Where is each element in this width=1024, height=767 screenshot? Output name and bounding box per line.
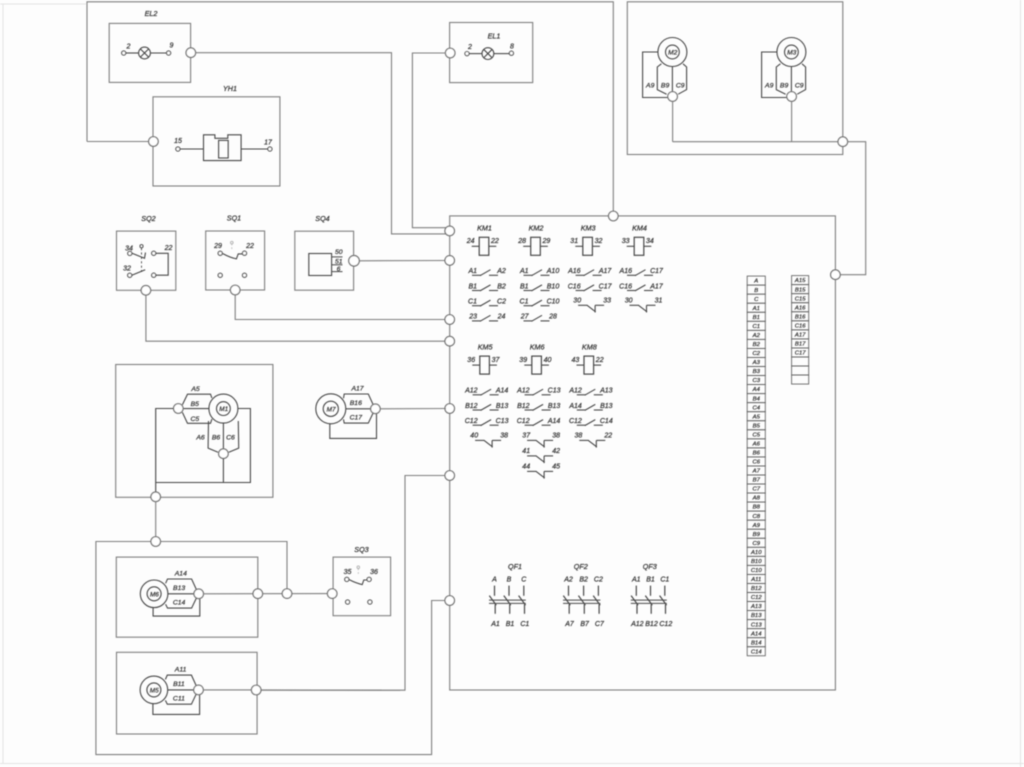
node: M1 bottom terminal [219,449,229,459]
svg-text:KM3: KM3 [581,224,596,233]
svg-text:B13: B13 [600,403,613,410]
node: motor box output [838,137,848,147]
svg-text:B16: B16 [350,400,362,407]
svg-text:A14: A14 [495,388,509,395]
svg-text:YH1: YH1 [223,84,237,93]
svg-text:C5: C5 [752,432,760,438]
wire: M1 internal bracket [156,409,174,493]
terminal strip X2 [792,276,809,384]
svg-text:17: 17 [264,140,273,147]
svg-text:41: 41 [522,448,530,455]
node: SQ3 input [327,589,337,599]
contactor coil KM4 [622,224,654,256]
svg-text:28: 28 [517,238,526,245]
svg-text:B11: B11 [173,681,185,688]
wire: M7 to main box [380,408,446,410]
svg-text:C17: C17 [350,415,363,422]
svg-text:A12: A12 [516,388,530,395]
wire: M1 box to lower bus [155,502,157,537]
wire: M2 node down [672,101,674,141]
svg-text:29: 29 [213,243,222,250]
svg-text:C3: C3 [752,378,760,384]
svg-text:6: 6 [337,266,341,273]
svg-text:B6: B6 [212,434,221,441]
svg-text:B9: B9 [661,83,670,90]
contactor coil KM1 [466,224,499,256]
motor M3 [762,38,806,98]
node: main box left (M7) [445,404,455,414]
node: YH1 input [149,137,159,147]
svg-text:B7: B7 [580,621,590,628]
node: main box left (SQ4) [445,256,455,266]
motor M7 [316,386,377,439]
svg-text:43: 43 [572,357,580,364]
svg-text:C2: C2 [752,351,760,357]
node: main box left (M1 bus) [445,471,455,481]
node: M6/loop junction [282,589,292,599]
svg-text:KM5: KM5 [478,343,494,352]
svg-text:B: B [754,288,758,294]
svg-text:C4: C4 [752,405,760,411]
svg-text:A14: A14 [547,418,561,425]
svg-text:44: 44 [522,463,530,470]
contactor coil KM2 [517,224,550,256]
svg-text:KM2: KM2 [529,224,544,233]
svg-text:C1: C1 [660,576,669,583]
node: M6 box border [253,589,263,599]
svg-text:B15: B15 [795,287,806,293]
svg-text:38: 38 [500,432,508,439]
svg-text:A7: A7 [564,621,575,628]
svg-text:C17: C17 [599,283,613,290]
svg-text:38: 38 [575,432,583,439]
svg-text:B13: B13 [548,403,561,410]
svg-text:M6: M6 [150,591,159,598]
svg-text:A9: A9 [645,83,655,90]
wire W2: EL1 to main box left border [412,53,446,228]
wire: SQ2 to main box [146,295,446,341]
wire: SQ4 to main box [359,260,446,262]
svg-text:28: 28 [548,314,557,321]
svg-text:B16: B16 [795,314,806,320]
circuit breaker QF1 [489,562,529,628]
svg-text:A9: A9 [764,83,774,90]
svg-text:SQ3: SQ3 [354,545,368,554]
svg-text:M5: M5 [150,688,159,695]
svg-text:C12: C12 [569,418,582,425]
svg-text:M7: M7 [327,406,336,413]
svg-text:38: 38 [552,432,560,439]
contact group KM6 [516,388,560,479]
svg-text:C9: C9 [795,83,804,90]
svg-text:24: 24 [497,314,506,321]
svg-text:A: A [753,279,758,285]
svg-text:EL2: EL2 [145,9,158,18]
svg-text:32: 32 [123,266,131,273]
wire: M1 bottom node down [222,459,224,483]
svg-text:A14: A14 [750,631,762,637]
svg-text:B1: B1 [520,283,529,290]
svg-text:32: 32 [595,238,603,245]
svg-text:B13: B13 [173,585,185,592]
wire: loop bus from main box through bottom [96,542,445,755]
svg-text:C16: C16 [568,283,581,290]
svg-text:EL1: EL1 [488,32,501,41]
box: motor M5 enclosure [117,652,258,734]
svg-text:C14: C14 [751,649,763,655]
svg-text:A1: A1 [752,306,760,312]
motor M5 [140,667,200,715]
svg-text:A1: A1 [631,576,641,583]
contact group KM4 [619,268,664,312]
svg-text:SQ4: SQ4 [315,214,329,223]
svg-text:A12: A12 [630,621,644,628]
svg-text:A12: A12 [568,388,582,395]
node: M3 star point [787,92,797,102]
motor M2 [643,38,687,98]
motor M6 [140,571,200,617]
node: main box left (lamps) [445,226,455,236]
svg-text:A16: A16 [567,268,581,275]
box: motor M1 enclosure [116,365,273,498]
svg-text:A16: A16 [794,305,806,311]
svg-text:2: 2 [126,44,131,51]
node: main box left (SQ2) [445,336,455,346]
svg-text:31: 31 [570,238,578,245]
svg-text:B2: B2 [579,576,588,583]
transformer YH1 [153,84,280,186]
svg-text:B3: B3 [753,369,761,375]
svg-text:2: 2 [467,44,472,51]
lamp EL2 [109,9,190,82]
svg-text:B1: B1 [506,621,515,628]
node: M6 star point [194,589,204,599]
node: M1 bus junction [151,537,161,547]
node: M2 star point [668,92,678,102]
svg-text:30: 30 [573,297,581,304]
svg-text:C17: C17 [650,268,664,275]
svg-text:KM1: KM1 [477,224,492,233]
svg-text:C1: C1 [520,299,529,306]
svg-text:B17: B17 [795,342,806,348]
svg-text:A17: A17 [350,386,363,393]
wire: YH1 node to left bus [87,141,149,143]
svg-text:A16: A16 [619,268,633,275]
svg-text:C12: C12 [751,595,763,601]
circuit breaker QF3 [630,562,672,628]
svg-text:C13: C13 [751,622,763,628]
svg-text:C15: C15 [795,296,807,302]
wire: M6 to SQ3 [204,593,328,595]
limit switch SQ2 [117,214,176,290]
svg-text:B2: B2 [497,283,506,290]
svg-text:A3: A3 [752,360,761,366]
svg-text:KM8: KM8 [582,343,597,352]
svg-text:C8: C8 [752,514,760,520]
svg-text:B13: B13 [496,403,509,410]
svg-text:C11: C11 [173,696,185,703]
svg-text:C1: C1 [468,299,477,306]
svg-text:A5: A5 [190,386,200,393]
svg-text:C12: C12 [465,418,478,425]
svg-text:A8: A8 [752,496,761,502]
contact group KM3 [567,268,612,312]
svg-text:B2: B2 [753,342,761,348]
svg-text:C6: C6 [752,460,760,466]
node: SQ4 output [349,255,360,266]
svg-text:SQ1: SQ1 [227,214,241,223]
limit switch SQ1 [206,214,265,291]
svg-text:B9: B9 [753,532,761,538]
svg-text:B5: B5 [753,423,761,429]
svg-text:45: 45 [552,463,560,470]
svg-text:40: 40 [470,432,478,439]
node: main box top (from lighting bus) [609,211,619,221]
contact group KM2 [519,268,560,321]
svg-text:C16: C16 [619,283,632,290]
node: EL1 input [445,48,455,58]
svg-text:SQ2: SQ2 [141,214,155,223]
svg-text:C14: C14 [173,600,186,607]
svg-text:A4: A4 [752,387,761,393]
contact group KM5 [464,388,508,448]
svg-text:37: 37 [522,432,531,439]
svg-text:C10: C10 [547,299,560,306]
svg-text:A13: A13 [599,388,613,395]
svg-text:C5: C5 [190,416,199,423]
node: EL2 output [186,48,196,58]
node: main box left (M5 bus) [445,596,455,606]
svg-text:B1: B1 [468,283,477,290]
svg-text:C2: C2 [594,576,603,583]
svg-text:36: 36 [370,569,378,576]
svg-text:B13: B13 [751,613,762,619]
svg-text:22: 22 [490,238,499,245]
svg-text:A5: A5 [752,414,761,420]
svg-text:22: 22 [245,243,254,250]
wire W1: EL2 to main box left border [196,53,447,234]
wire: loop bus drop to M6 line [282,542,287,594]
svg-text:A11: A11 [750,577,761,583]
svg-text:A11: A11 [174,667,187,674]
wire: top bus from YH1 up-left, across top, down to main box [87,2,613,212]
svg-text:C1: C1 [520,621,529,628]
svg-text:C13: C13 [548,388,561,395]
box: motors M2 M3 enclosure [627,2,843,155]
svg-text:C12: C12 [659,621,672,628]
svg-text:A15: A15 [794,278,806,284]
svg-text:B10: B10 [751,559,762,565]
svg-text:A10: A10 [546,268,560,275]
svg-text:37: 37 [492,357,501,364]
svg-text:22: 22 [164,245,173,252]
svg-text:M2: M2 [668,50,677,57]
box: motor M6 enclosure [116,557,257,637]
svg-text:B4: B4 [753,396,761,402]
svg-text:B12: B12 [751,586,762,592]
svg-text:QF2: QF2 [574,562,588,571]
svg-text:C16: C16 [795,323,807,329]
svg-text:51: 51 [335,258,343,265]
svg-text:A2: A2 [496,268,506,275]
circuit breaker QF2 [563,562,605,628]
svg-text:KM6: KM6 [530,343,545,352]
svg-text:30: 30 [625,297,633,304]
svg-text:A6: A6 [752,441,761,447]
lamp EL1 [450,23,533,83]
svg-text:A9: A9 [752,523,761,529]
svg-text:B7: B7 [753,478,761,484]
motor M1 [182,386,238,452]
svg-text:23: 23 [468,314,477,321]
svg-text:QF3: QF3 [643,562,657,571]
wire: SQ1 to main box [235,295,446,320]
svg-text:36: 36 [467,357,475,364]
node: SQ1 output [230,285,240,295]
svg-text:B8: B8 [753,505,761,511]
svg-text:C2: C2 [497,299,506,306]
svg-text:A17: A17 [598,268,613,275]
svg-text:C12: C12 [517,418,530,425]
svg-text:B14: B14 [751,640,762,646]
svg-text:A6: A6 [195,434,205,441]
svg-text:33: 33 [622,238,630,245]
svg-text:C: C [754,297,759,303]
node: M1 box output [151,492,161,502]
svg-text:C17: C17 [795,351,807,357]
svg-text:C7: C7 [595,621,605,628]
svg-text:42: 42 [552,448,560,455]
node: M7 star point [371,404,381,414]
svg-text:KM4: KM4 [632,224,647,233]
svg-text:C14: C14 [600,418,613,425]
svg-text:C7: C7 [752,487,760,493]
terminal strip X1 [747,276,765,656]
svg-text:C13: C13 [496,418,509,425]
limit switch SQ3 [333,545,391,616]
svg-text:9: 9 [170,43,174,50]
svg-text:33: 33 [603,297,611,304]
node: M5 box border [251,685,261,695]
svg-text:35: 35 [344,569,352,576]
contact group KM1 [467,268,506,321]
svg-text:B12: B12 [465,403,478,410]
svg-text:B5: B5 [191,401,200,408]
svg-text:B10: B10 [547,283,560,290]
svg-text:A1: A1 [467,268,477,275]
svg-text:B12: B12 [645,621,658,628]
svg-text:34: 34 [646,238,654,245]
box: main control enclosure [450,216,836,690]
svg-text:8: 8 [510,44,514,51]
contact group KM8 [568,388,612,448]
svg-text:A1: A1 [519,268,529,275]
contactor coil KM5 [467,343,500,375]
svg-text:C9: C9 [676,83,685,90]
svg-text:22: 22 [603,432,612,439]
wire: motor box to main box right border [840,142,866,275]
svg-text:M3: M3 [787,50,796,57]
svg-text:C10: C10 [751,568,763,574]
svg-text:A7: A7 [752,469,761,475]
svg-text:A17: A17 [794,332,806,338]
svg-text:M1: M1 [219,406,228,413]
svg-text:A1: A1 [490,621,500,628]
wire: motor bus to box right border [673,141,838,143]
svg-text:B6: B6 [753,451,761,457]
svg-text:QF1: QF1 [508,562,522,571]
node: M1 left terminal [174,404,184,414]
svg-text:A14: A14 [174,571,187,578]
svg-text:B12: B12 [517,403,530,410]
svg-text:A: A [491,576,497,583]
limit switch SQ4 [295,214,354,290]
svg-text:B1: B1 [646,576,655,583]
wire: M3 node down [791,101,793,141]
svg-text:15: 15 [174,138,182,145]
svg-text:A13: A13 [750,604,762,610]
svg-text:31: 31 [655,297,663,304]
svg-text:C6: C6 [226,434,235,441]
contactor coil KM3 [570,224,602,256]
svg-text:B: B [507,576,512,583]
svg-text:24: 24 [466,238,475,245]
svg-text:27: 27 [520,314,530,321]
svg-text:B9: B9 [780,83,789,90]
contactor coil KM8 [572,343,604,375]
svg-text:40: 40 [544,357,552,364]
node: M5 star point [194,685,204,695]
svg-text:A2: A2 [752,333,761,339]
svg-text:50: 50 [335,249,343,256]
svg-text:A2: A2 [563,576,573,583]
svg-text:A17: A17 [649,283,664,290]
svg-text:C9: C9 [752,541,760,547]
contactor coil KM6 [519,343,551,375]
svg-text:39: 39 [519,357,527,364]
svg-text:22: 22 [595,357,604,364]
node: main box right (from motor box) [831,270,841,280]
wire: bus from main box (M1/M5 feed) [261,476,445,691]
node: main box left (SQ1) [445,315,455,325]
svg-text:A12: A12 [464,388,478,395]
svg-text:B1: B1 [753,315,760,321]
svg-text:29: 29 [542,238,551,245]
svg-text:C1: C1 [752,324,760,330]
svg-text:A10: A10 [750,550,762,556]
wire: M5 to bus [203,689,400,691]
node: SQ2 output [141,286,151,296]
svg-text:A14: A14 [568,403,582,410]
